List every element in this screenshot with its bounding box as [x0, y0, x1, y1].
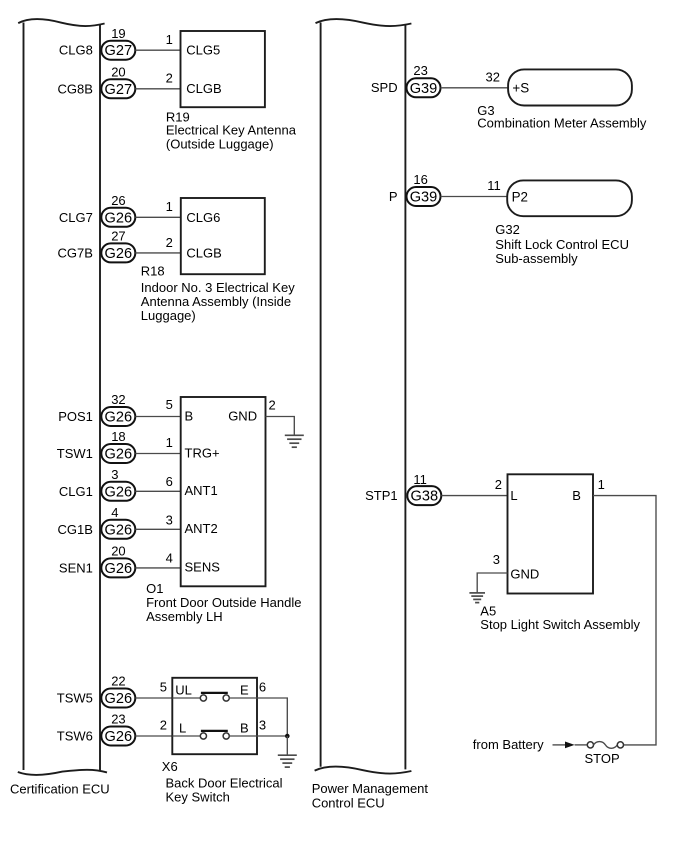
- svg-text:CG1B: CG1B: [57, 522, 92, 537]
- svg-text:3: 3: [259, 718, 266, 733]
- svg-text:23: 23: [413, 63, 427, 78]
- wire TSW6 to component: [135, 735, 172, 737]
- wire A5 GND to ground: [477, 573, 507, 593]
- svg-text:CG8B: CG8B: [57, 81, 92, 96]
- svg-text:Combination Meter Assembly: Combination Meter Assembly: [477, 116, 647, 131]
- svg-text:1: 1: [166, 435, 173, 450]
- svg-text:B: B: [240, 721, 249, 736]
- label: Power Management Control ECU: [312, 781, 429, 811]
- svg-text:G26: G26: [105, 561, 133, 577]
- svg-text:G26: G26: [105, 484, 133, 500]
- wire from Battery (arrow feed): [553, 744, 567, 746]
- svg-text:27: 27: [111, 229, 125, 244]
- svg-text:19: 19: [111, 26, 125, 41]
- svg-text:(Outside Luggage): (Outside Luggage): [166, 136, 274, 151]
- svg-text:23: 23: [111, 711, 125, 726]
- svg-text:G26: G26: [105, 410, 133, 426]
- svg-text:Stop Light Switch Assembly: Stop Light Switch Assembly: [480, 617, 640, 632]
- svg-text:32: 32: [111, 392, 125, 407]
- junction node (X6 E/B to ground): [285, 734, 290, 739]
- svg-text:UL: UL: [175, 683, 192, 698]
- svg-text:G26: G26: [105, 691, 133, 707]
- svg-text:TSW6: TSW6: [57, 729, 93, 744]
- svg-text:Luggage): Luggage): [141, 308, 196, 323]
- svg-text:G27: G27: [105, 43, 133, 59]
- svg-text:4: 4: [111, 505, 118, 520]
- wire X6 E to junction: [257, 698, 287, 736]
- component X6 box (Back Door Electrical Key Switch): [172, 678, 257, 754]
- svg-text:P: P: [389, 189, 398, 204]
- svg-text:CLG8: CLG8: [59, 43, 93, 58]
- designator O1 + description: [146, 581, 301, 624]
- wire CLG7 to component: [135, 216, 181, 218]
- svg-text:Certification ECU: Certification ECU: [10, 782, 110, 797]
- svg-text:G27: G27: [105, 82, 133, 98]
- svg-text:Shift Lock Control ECU: Shift Lock Control ECU: [495, 237, 629, 252]
- svg-text:from Battery: from Battery: [473, 737, 544, 752]
- connector oval G27 (CG8B): [101, 79, 135, 98]
- svg-text:3: 3: [166, 512, 173, 527]
- svg-text:O1: O1: [146, 581, 163, 596]
- svg-text:STP1: STP1: [365, 488, 398, 503]
- svg-text:L: L: [179, 721, 186, 736]
- wire TSW1 to component: [135, 453, 180, 455]
- connector oval G26 (POS1): [101, 407, 135, 426]
- svg-text:SENS: SENS: [185, 560, 221, 575]
- connector oval G26 (SEN1): [101, 558, 135, 577]
- connector oval G39 (SPD): [407, 78, 441, 97]
- connector oval G26 (CG1B): [101, 520, 135, 539]
- svg-text:CLG5: CLG5: [186, 43, 220, 58]
- connector oval G26 (TSW6): [101, 727, 135, 746]
- component A5 box (Stop Light Switch Assembly): [508, 474, 594, 593]
- svg-text:16: 16: [413, 172, 427, 187]
- wire STP1 to A5 pin 2: [441, 495, 507, 497]
- svg-text:G26: G26: [105, 210, 133, 226]
- arrow head (battery feed direction): [565, 742, 575, 749]
- svg-text:1: 1: [598, 477, 605, 492]
- svg-text:5: 5: [166, 397, 173, 412]
- switch contact UL-E (upper): [172, 693, 257, 701]
- ground (O1 GND): [285, 435, 304, 447]
- svg-text:Front Door Outside Handle: Front Door Outside Handle: [146, 595, 301, 610]
- svg-text:CLG7: CLG7: [59, 210, 93, 225]
- switch contact L-B (lower): [172, 731, 257, 739]
- svg-text:Electrical Key Antenna: Electrical Key Antenna: [166, 122, 297, 137]
- svg-text:GND: GND: [228, 408, 257, 423]
- svg-text:20: 20: [111, 65, 125, 80]
- svg-text:CLG6: CLG6: [186, 210, 220, 225]
- wire A5 B to STOP fuse (node B): [593, 496, 656, 745]
- svg-text:3: 3: [493, 552, 500, 567]
- svg-text:CG7B: CG7B: [57, 245, 92, 260]
- svg-text:2: 2: [160, 718, 167, 733]
- svg-text:ANT1: ANT1: [185, 483, 218, 498]
- svg-text:1: 1: [166, 199, 173, 214]
- svg-text:5: 5: [160, 680, 167, 695]
- ground (X6): [278, 755, 297, 767]
- svg-text:X6: X6: [162, 759, 178, 774]
- svg-text:G39: G39: [410, 81, 438, 97]
- wire CG7B to component: [135, 252, 181, 254]
- svg-text:G38: G38: [411, 489, 439, 505]
- component G32 box (Shift Lock Control ECU Sub-assembly): [507, 180, 632, 216]
- svg-text:POS1: POS1: [58, 409, 93, 424]
- svg-text:Back Door Electrical: Back Door Electrical: [166, 775, 283, 790]
- wire POS1 to component: [135, 416, 180, 418]
- svg-text:A5: A5: [480, 603, 496, 618]
- svg-text:3: 3: [111, 467, 118, 482]
- ECU block: Certification ECU (left bus): [18, 19, 107, 775]
- svg-text:STOP: STOP: [585, 751, 620, 766]
- svg-text:TSW5: TSW5: [57, 691, 93, 706]
- svg-text:G26: G26: [105, 246, 133, 262]
- wire P to G32 pin 11: [441, 196, 508, 198]
- svg-text:11: 11: [487, 178, 501, 193]
- ECU block: Power Management Control ECU (right bus): [315, 19, 412, 774]
- svg-text:32: 32: [486, 69, 500, 84]
- wire X6 B to junction: [257, 735, 287, 737]
- svg-text:22: 22: [111, 673, 125, 688]
- svg-text:Antenna Assembly (Inside: Antenna Assembly (Inside: [141, 294, 291, 309]
- wire TSW5 to component: [135, 697, 172, 699]
- svg-text:6: 6: [166, 474, 173, 489]
- fuse STOP: [587, 742, 623, 749]
- svg-text:G39: G39: [410, 190, 438, 206]
- svg-text:G32: G32: [495, 222, 520, 237]
- connector oval G26 (TSW5): [101, 689, 135, 708]
- wire CLG1 to component: [135, 490, 180, 492]
- svg-text:6: 6: [259, 680, 266, 695]
- designator R18 + description: [141, 263, 295, 323]
- svg-text:Assembly LH: Assembly LH: [146, 609, 223, 624]
- wire junction to ground: [286, 736, 288, 755]
- svg-text:TRG+: TRG+: [185, 445, 220, 460]
- wire CG8B to component: [135, 88, 180, 90]
- component R18 box (Indoor No.3 Electrical Key Antenna): [181, 198, 265, 274]
- svg-text:P2: P2: [512, 190, 528, 205]
- svg-text:2: 2: [269, 397, 276, 412]
- svg-text:Control ECU: Control ECU: [312, 796, 385, 811]
- svg-text:G26: G26: [105, 522, 133, 538]
- svg-text:Key Switch: Key Switch: [166, 790, 230, 805]
- svg-text:ANT2: ANT2: [185, 521, 218, 536]
- svg-text:2: 2: [495, 477, 502, 492]
- svg-text:26: 26: [111, 193, 125, 208]
- svg-text:B: B: [185, 408, 194, 423]
- svg-text:G26: G26: [105, 447, 133, 463]
- svg-text:2: 2: [166, 235, 173, 250]
- svg-text:2: 2: [166, 71, 173, 86]
- ground (A5): [469, 593, 485, 603]
- svg-text:18: 18: [111, 429, 125, 444]
- svg-text:4: 4: [166, 551, 173, 566]
- component O1 box (Front Door Outside Handle LH): [181, 397, 266, 586]
- connector oval G27 (CLG8): [101, 41, 135, 60]
- wire SEN1 to component: [135, 567, 180, 569]
- wire O1 GND to ground: [266, 417, 295, 436]
- connector oval G26 (CLG1): [101, 482, 135, 501]
- svg-text:Indoor No. 3 Electrical Key: Indoor No. 3 Electrical Key: [141, 280, 295, 295]
- svg-text:CLGB: CLGB: [186, 245, 221, 260]
- svg-text:E: E: [240, 683, 249, 698]
- svg-text:20: 20: [111, 544, 125, 559]
- svg-text:CLG1: CLG1: [59, 484, 93, 499]
- svg-text:G26: G26: [105, 729, 133, 745]
- wire arrow to fuse: [575, 744, 588, 746]
- designator G3 + description: [477, 103, 647, 131]
- svg-text:CLGB: CLGB: [186, 81, 221, 96]
- svg-text:R18: R18: [141, 263, 165, 278]
- designator R19 + description: [166, 110, 297, 152]
- component G3 box (Combination Meter Assembly): [508, 69, 632, 105]
- svg-text:GND: GND: [510, 567, 539, 582]
- wire CLG8 to component: [135, 49, 180, 51]
- svg-text:L: L: [510, 488, 517, 503]
- designator A5 + description: [480, 603, 640, 632]
- svg-text:B: B: [572, 488, 581, 503]
- designator X6 + description: [162, 759, 283, 805]
- wire SPD to G3 pin 32: [441, 87, 509, 89]
- connector oval G39 (P): [407, 187, 441, 206]
- svg-text:Power Management: Power Management: [312, 781, 429, 796]
- svg-text:Sub-assembly: Sub-assembly: [495, 251, 578, 266]
- component R19 box (Electrical Key Antenna): [181, 31, 265, 107]
- svg-text:SPD: SPD: [371, 80, 398, 95]
- connector oval G38 (STP1): [407, 486, 441, 505]
- svg-text:+S: +S: [512, 80, 529, 95]
- connector oval G26 (TSW1): [101, 444, 135, 463]
- svg-text:11: 11: [413, 472, 427, 487]
- svg-text:TSW1: TSW1: [57, 446, 93, 461]
- designator G32 + description: [495, 222, 629, 266]
- connector oval G26 (CG7B): [101, 243, 135, 262]
- svg-text:1: 1: [166, 32, 173, 47]
- connector oval G26 (CLG7): [101, 208, 135, 227]
- wire CG1B to component: [135, 528, 180, 530]
- svg-text:SEN1: SEN1: [59, 560, 93, 575]
